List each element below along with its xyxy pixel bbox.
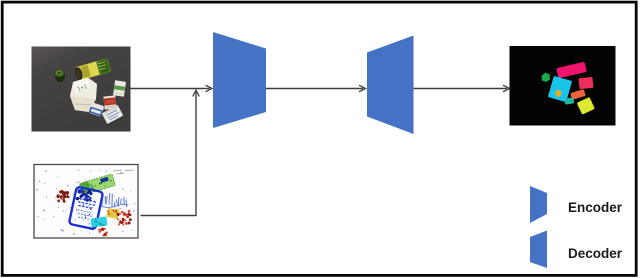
arrowhead into encoder (206, 85, 213, 92)
small green-striped box in photo (113, 80, 126, 96)
legend encoder trapezoid (530, 186, 547, 223)
wire photo to encoder (131, 88, 210, 90)
periwinkle strokes in sketch (101, 193, 128, 208)
green box in sketch (79, 174, 115, 195)
svg-text:Decoder: Decoder (568, 246, 623, 261)
wire decoder to output (414, 88, 508, 90)
teal small segment (564, 97, 574, 104)
wire sketch to junction (141, 92, 197, 216)
encoder trapezoid (213, 32, 266, 128)
arrowhead into decoder (359, 85, 366, 92)
red scribble in sketch (117, 210, 132, 226)
yellow tin can in photo (73, 58, 111, 81)
input point-cloud sketch (34, 165, 138, 239)
orange segment (570, 89, 585, 100)
tiny gray marks top right of sketch (113, 170, 134, 174)
white crumpled carton in photo (70, 78, 97, 113)
green can in photo (55, 70, 65, 82)
scattered point-cloud dots (36, 169, 135, 235)
yellow dot segment (556, 90, 562, 97)
cyan patch in sketch (90, 216, 107, 227)
arrowhead up at junction (193, 90, 200, 97)
pink right segment (578, 77, 593, 89)
output segmentation image (510, 46, 616, 126)
blue label jar in photo (89, 102, 105, 116)
blue outlined box in sketch (69, 187, 103, 230)
input RGB photo (32, 47, 131, 132)
svg-text:Encoder: Encoder (568, 200, 623, 215)
green segment (542, 73, 551, 82)
yellow-green segment (577, 97, 595, 115)
cyan segment (548, 76, 572, 102)
red label tin in photo (103, 95, 116, 109)
white box with blue text in photo (102, 105, 124, 124)
dark red blob in sketch (57, 190, 70, 203)
yellow patch in sketch (106, 208, 120, 219)
legend decoder trapezoid (530, 231, 547, 269)
wire encoder to decoder (266, 88, 363, 90)
magenta top segment (556, 62, 587, 79)
decoder trapezoid (367, 36, 414, 135)
dense dark-blue scribble blob in sketch (75, 187, 93, 203)
arrowhead into output (503, 85, 510, 92)
red dots bottom cluster in sketch (98, 228, 108, 237)
